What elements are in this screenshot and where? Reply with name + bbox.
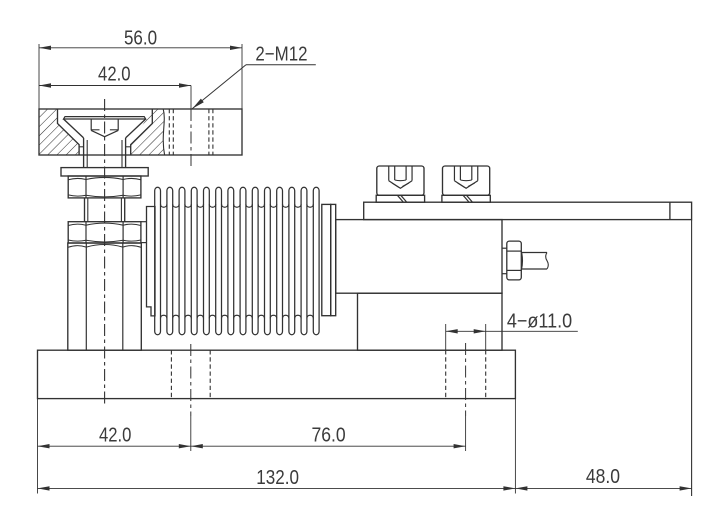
svg-text:4−ø11.0: 4−ø11.0 — [507, 311, 572, 333]
svg-text:132.0: 132.0 — [256, 467, 299, 489]
svg-text:56.0: 56.0 — [124, 27, 157, 49]
svg-text:42.0: 42.0 — [98, 64, 131, 86]
svg-text:42.0: 42.0 — [99, 425, 131, 447]
svg-text:2−M12: 2−M12 — [255, 44, 307, 66]
svg-text:48.0: 48.0 — [586, 466, 620, 488]
svg-text:76.0: 76.0 — [312, 425, 346, 447]
